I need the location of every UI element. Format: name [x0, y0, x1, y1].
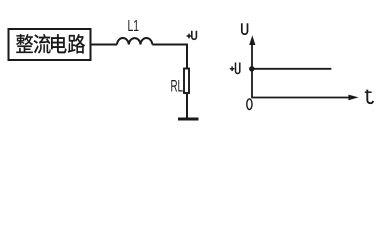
label +U (level): [230, 63, 240, 74]
label +U at node: [187, 31, 197, 40]
svg-text:L1: L1: [128, 18, 140, 35]
level line +U: [252, 68, 331, 70]
svg-text:RL: RL: [171, 77, 184, 96]
inductor L1: [117, 38, 152, 45]
wire: box output to inductor: [91, 44, 118, 46]
label t (axis): [365, 90, 373, 104]
resistor RL: [184, 69, 189, 94]
wire: inductor to +U node corner: [152, 45, 187, 69]
label U (axis): [242, 23, 248, 34]
block U1: rectifier circuit box: [9, 29, 91, 60]
label O (origin): [247, 99, 252, 110]
node dot on axis: [249, 66, 254, 71]
ground: [178, 118, 199, 121]
label: 整流电路 (rectifier circuit): [16, 34, 85, 54]
wire: resistor bottom lead: [186, 94, 188, 118]
graph: vertical axis U: [251, 43, 253, 98]
graph: horizontal axis t: [251, 97, 350, 99]
